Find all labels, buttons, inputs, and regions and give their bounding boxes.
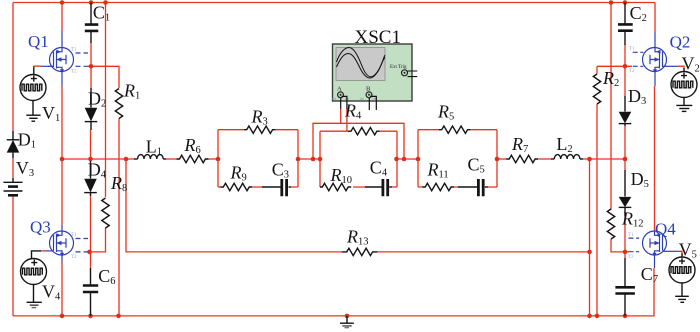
svg-text:T2: T2 [71,255,77,260]
svg-text:Q3: Q3 [30,218,51,237]
svg-text:T2: T2 [628,255,634,260]
svg-text:Q1: Q1 [28,32,49,51]
svg-text:T2: T2 [629,69,635,74]
svg-text:XSC1: XSC1 [355,27,401,48]
svg-text:T1: T1 [629,47,635,52]
svg-text:T1: T1 [628,233,634,238]
svg-text:Q2: Q2 [670,33,691,52]
svg-text:T1: T1 [71,233,77,238]
svg-text:Q4: Q4 [655,220,676,239]
svg-text:T2: T2 [71,70,77,75]
svg-text:T1: T1 [71,48,77,53]
